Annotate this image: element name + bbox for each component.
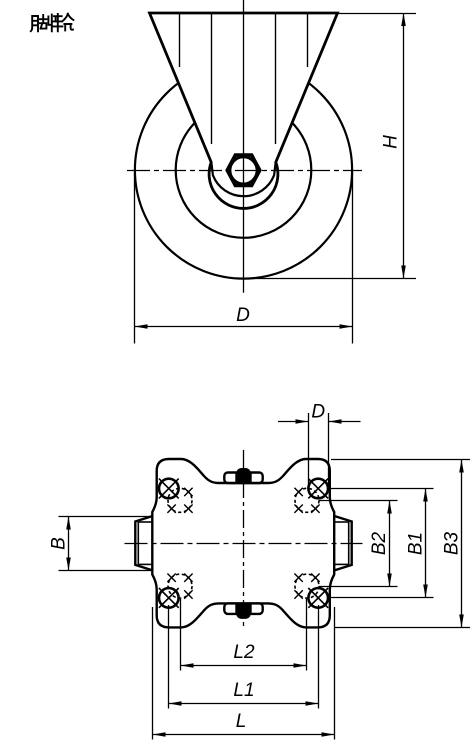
dimension D bottom view (278, 413, 361, 487)
轮 left component 车 (53, 14, 63, 31)
fork inner fold line right (275, 14, 277, 144)
svg-text:B1: B1 (406, 532, 427, 555)
svg-text:L1: L1 (233, 680, 254, 701)
svg-text:B2: B2 (369, 531, 390, 555)
dimension B (59, 517, 153, 571)
top fixing nut (224, 468, 262, 483)
mounting plate (152, 459, 334, 627)
svg-text:B: B (49, 537, 70, 550)
fork outer fold line left (179, 14, 181, 67)
dimension B3 (331, 460, 470, 628)
mounting hole top-left (159, 479, 193, 513)
title 脚轮 (31, 14, 74, 32)
mounting hole bottom-right (294, 574, 328, 608)
wheel vertical center line (243, 0, 245, 293)
脚 middle component (40, 15, 46, 29)
bottom fixing nut (224, 603, 262, 619)
脚 left component (31, 16, 38, 31)
plate vertical center line (243, 450, 245, 630)
轮 right component 仑 (62, 14, 73, 31)
svg-text:D: D (311, 402, 325, 423)
svg-text:H: H (381, 135, 402, 149)
dimension L1 (169, 605, 319, 709)
svg-text:L: L (236, 711, 247, 732)
dimension L2 (181, 599, 307, 671)
wheel horizontal center line (125, 170, 362, 172)
svg-text:D: D (236, 305, 250, 326)
wheel protrusion left (135, 516, 152, 570)
dimension L (153, 607, 335, 740)
fork inner fold line left (211, 14, 213, 144)
svg-text:L2: L2 (233, 642, 255, 663)
fork inner U edge (211, 163, 275, 197)
wheel outer circle (135, 61, 352, 278)
mounting hole top-right (294, 479, 328, 513)
axle hex nut (227, 155, 260, 186)
mounting hole bottom-left (159, 574, 193, 608)
dimension H (244, 13, 417, 279)
wheel protrusion right (334, 516, 351, 570)
axle nut circle (230, 157, 257, 184)
wheel middle circle (176, 102, 312, 238)
dimension B1 (328, 489, 433, 598)
脚 right component (48, 15, 51, 32)
dimension D top view (135, 172, 353, 344)
fork bracket body (150, 13, 338, 208)
dimension B2 (319, 501, 398, 587)
fork outer fold line right (307, 14, 309, 67)
svg-text:B3: B3 (442, 531, 463, 555)
plate horizontal center line (125, 543, 363, 545)
